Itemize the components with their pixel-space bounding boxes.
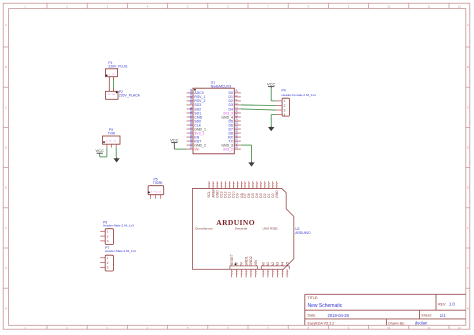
svg-text:GND: GND [215,190,219,198]
svg-text:SD2: SD2 [194,107,201,111]
svg-text:SK: SK [189,121,193,125]
svg-text:220V_PLUG: 220V_PLUG [108,65,127,69]
svg-text:VCC: VCC [95,148,104,153]
svg-text:13: 13 [235,125,239,129]
svg-text:D4: D4 [255,193,259,197]
svg-text:A5: A5 [285,262,289,267]
svg-text:GND_3: GND_3 [221,143,233,147]
svg-text:ARDUINO: ARDUINO [295,231,311,235]
svg-text:GND: GND [275,190,279,198]
svg-text:Sheet:: Sheet: [421,314,431,318]
svg-text:U1: U1 [211,80,216,84]
svg-text:MO: MO [189,107,193,112]
svg-text:EasyEDA V5.3.2: EasyEDA V5.3.2 [308,321,335,325]
svg-text:D0: D0 [271,193,275,197]
svg-text:G3: G3 [235,140,239,144]
svg-text:GND_2: GND_2 [194,143,206,147]
svg-text:3V3_3: 3V3_3 [223,111,233,115]
svg-text:AREF: AREF [211,189,215,198]
svg-text:3: 3 [284,108,286,112]
svg-text:SD0: SD0 [194,119,201,123]
svg-text:G1: G1 [189,124,193,128]
svg-text:G2: G2 [189,140,193,144]
svg-text:ADC0: ADC0 [194,91,203,95]
svg-text:EN: EN [189,133,193,137]
svg-text:UNO R3B2: UNO R3B2 [262,227,277,231]
svg-text:TQ: TQ [154,191,157,193]
svg-text:Date:: Date: [308,314,317,318]
svg-text:Diecimila: Diecimila [235,227,248,231]
svg-text:New Schematic: New Schematic [308,303,343,309]
svg-text:D9: D9 [236,193,240,197]
svg-text:ARDUINO: ARDUINO [216,218,255,227]
svg-text:TS090: TS090 [153,181,163,185]
svg-text:3V: 3V [235,145,239,149]
svg-text:SD3: SD3 [194,103,201,107]
svg-text:D6: D6 [247,193,251,197]
svg-text:GND_1: GND_1 [194,127,206,131]
svg-text:doolan: doolan [415,321,428,326]
svg-text:D2: D2 [189,96,193,100]
svg-text:3V3_1: 3V3_1 [194,131,204,135]
svg-text:D6: D6 [229,123,234,127]
svg-text:220V_PLACA: 220V_PLACA [119,94,141,98]
svg-text:Header-Male-2.54_1x3: Header-Male-2.54_1x3 [105,249,136,253]
svg-text:D2: D2 [229,99,234,103]
svg-text:Vin: Vin [194,147,199,151]
svg-text:REV:: REV: [438,302,446,306]
svg-text:RX: RX [235,133,239,137]
svg-text:5V: 5V [189,145,193,149]
svg-text:Header-Male-2.54_1x3: Header-Male-2.54_1x3 [103,224,134,228]
svg-text:SD1: SD1 [194,111,201,115]
svg-text:RST: RST [194,139,202,143]
svg-text:TX: TX [235,137,239,141]
svg-text:D8: D8 [229,131,234,135]
svg-text:3V: 3V [235,109,239,113]
svg-text:2018-04-26: 2018-04-26 [328,313,350,318]
svg-text:15: 15 [235,129,239,133]
svg-text:A0: A0 [189,89,193,93]
svg-text:3V3_2: 3V3_2 [223,147,233,151]
svg-text:D5: D5 [251,193,255,197]
svg-text:A0: A0 [261,262,265,267]
svg-text:G4: G4 [235,112,239,116]
svg-text:RX: RX [228,135,234,139]
svg-text:D2: D2 [263,193,267,197]
svg-text:A1: A1 [266,262,270,267]
svg-text:GND1: GND1 [244,256,248,266]
svg-text:CS: CS [189,112,193,116]
svg-text:1/1: 1/1 [440,313,446,318]
svg-text:RSV_1: RSV_1 [194,95,205,99]
svg-text:P4: P4 [282,88,286,92]
svg-text:GND2: GND2 [249,256,253,266]
svg-text:RSV_2: RSV_2 [194,99,205,103]
svg-text:2: 2 [284,104,286,108]
svg-text:TX: TX [229,139,234,143]
svg-text:A2: A2 [271,262,275,267]
svg-text:CMD: CMD [194,115,202,119]
svg-text:A4: A4 [281,262,285,267]
svg-text:D4: D4 [229,107,234,111]
svg-text:RS: RS [189,137,193,141]
svg-text:D12: D12 [223,191,227,197]
svg-text:VCC: VCC [267,82,276,87]
svg-text:Duemilanove: Duemilanove [195,227,213,231]
svg-text:1: 1 [284,99,286,103]
svg-text:3V: 3V [189,129,193,133]
svg-text:UG: UG [112,94,116,96]
svg-text:MI: MI [189,117,193,120]
svg-text:GND_4: GND_4 [221,115,233,119]
svg-text:D5: D5 [229,119,234,123]
svg-text:D11: D11 [228,192,232,198]
svg-text:D1: D1 [267,193,271,197]
svg-text:D1: D1 [189,92,193,96]
svg-text:RESET: RESET [230,253,234,266]
svg-text:14: 14 [235,117,239,121]
svg-text:5V: 5V [240,261,244,266]
svg-text:CLK: CLK [194,123,201,127]
svg-text:Drawn By:: Drawn By: [388,321,405,325]
svg-text:D3: D3 [229,103,234,107]
svg-text:VCC: VCC [170,138,179,143]
svg-text:D1: D1 [229,95,234,99]
svg-text:D7: D7 [229,127,234,131]
svg-text:A3: A3 [276,262,280,267]
svg-text:12: 12 [235,121,239,125]
svg-text:D10: D10 [232,191,236,197]
svg-text:EN: EN [194,135,199,139]
svg-text:1.0: 1.0 [449,301,455,306]
svg-text:TITLE:: TITLE: [308,296,319,300]
svg-text:D0: D0 [229,91,234,95]
svg-text:D13: D13 [219,191,223,197]
svg-text:D7: D7 [243,193,247,197]
svg-text:4: 4 [284,113,286,117]
svg-text:10: 10 [189,101,193,105]
svg-text:TVW: TVW [108,132,116,136]
svg-text:D3: D3 [259,193,263,197]
svg-text:VIN: VIN [254,260,258,266]
svg-text:SCL: SCL [207,191,211,198]
svg-text:Header-Female-2.54_1x4: Header-Female-2.54_1x4 [282,93,317,97]
svg-text:16: 16 [235,89,239,93]
